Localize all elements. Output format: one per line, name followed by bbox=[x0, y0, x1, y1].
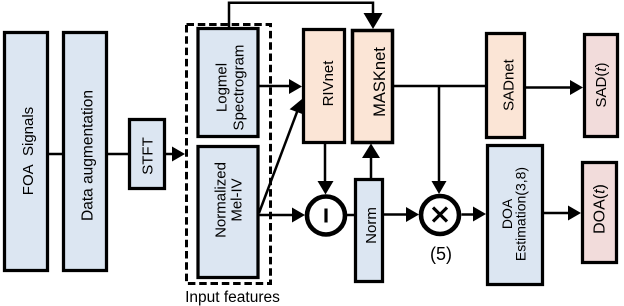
box MASKnet bbox=[353, 31, 393, 143]
svg-text:RIVnet: RIVnet bbox=[320, 60, 337, 107]
wire MASKnet to SADnet bbox=[394, 85, 486, 88]
subtract node bbox=[307, 197, 345, 235]
box Norm bbox=[356, 180, 383, 282]
wire Norm to MASKnet bbox=[362, 144, 380, 179]
svg-text:Input features: Input features bbox=[185, 289, 280, 306]
wire multiply node to DOA Estimation bbox=[462, 207, 487, 222]
svg-text:FOA Signals: FOA Signals bbox=[20, 107, 37, 195]
box Logmel Spectrogram bbox=[198, 29, 258, 137]
svg-text:(5): (5) bbox=[430, 244, 452, 264]
wire Normalized Mel-IV to RIVnet (diagonal) bbox=[259, 99, 305, 213]
svg-text:Data augmentation: Data augmentation bbox=[80, 90, 97, 221]
dashed group Input features bbox=[187, 25, 271, 284]
box Data augmentation bbox=[64, 33, 107, 271]
wire branch MASKnet output to multiply node bbox=[432, 86, 447, 194]
wire RIVnet to subtract node bbox=[318, 144, 334, 195]
wire Normalized Mel-IV to subtract node bbox=[259, 208, 305, 223]
box SADnet bbox=[487, 34, 525, 138]
svg-text:DOA(t): DOA(t) bbox=[592, 184, 609, 234]
box Normalized Mel-IV bbox=[198, 147, 258, 278]
svg-text:SADnet: SADnet bbox=[501, 58, 518, 111]
box DOA(t) bbox=[583, 163, 617, 263]
wire FOA Signals to Data augmentation bbox=[48, 153, 63, 156]
wire Norm to multiply node bbox=[384, 207, 419, 222]
wire DOA Estimation to DOA(t) bbox=[544, 206, 581, 221]
wire Logmel Spectrogram to MASKnet (top feedthrough) bbox=[229, 3, 383, 29]
box SAD(t) bbox=[585, 35, 618, 137]
wire Logmel Spectrogram to RIVnet bbox=[259, 79, 302, 94]
wire subtract node to Norm bbox=[345, 214, 355, 217]
svg-text:STFT: STFT bbox=[140, 137, 157, 175]
svg-text:MASKnet: MASKnet bbox=[371, 47, 389, 117]
box RIVnet bbox=[304, 30, 345, 143]
svg-text:Norm: Norm bbox=[363, 207, 380, 244]
box FOA Signals bbox=[5, 33, 48, 271]
svg-text:SAD(t): SAD(t) bbox=[593, 62, 610, 107]
multiply node bbox=[421, 196, 459, 234]
box DOA Estimation(3,8) bbox=[488, 146, 543, 285]
box STFT bbox=[130, 120, 165, 189]
wire Data augmentation to STFT bbox=[107, 153, 129, 156]
wire STFT to Input features bbox=[165, 147, 185, 162]
wire SADnet to SAD(t) bbox=[526, 80, 583, 95]
